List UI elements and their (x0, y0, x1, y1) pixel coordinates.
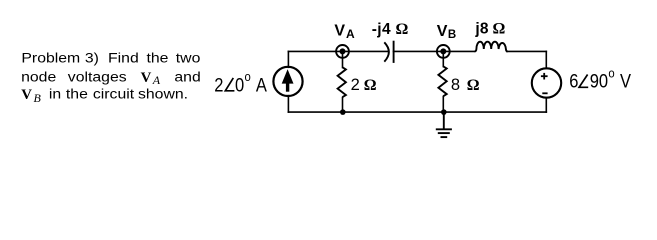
svg-text:8: 8 (451, 76, 460, 94)
capacitor C1 straight plate (393, 41, 395, 63)
voltage source V1 plus sign (541, 73, 548, 80)
svg-text:V: V (437, 23, 448, 40)
svg-text:6: 6 (569, 70, 578, 91)
angle symbol of 2 angle 0 (225, 78, 234, 91)
svg-text:j8: j8 (474, 21, 489, 38)
svg-text:Ω: Ω (396, 21, 409, 38)
svg-text:V: V (620, 70, 631, 91)
wire top right segment (507, 50, 546, 52)
svg-text:0: 0 (235, 74, 244, 95)
svg-text:A: A (346, 27, 355, 41)
svg-text:B: B (448, 29, 456, 41)
wire below resistor R2 (442, 97, 444, 113)
svg-text:V: V (334, 22, 345, 39)
wire top middle segment (394, 50, 475, 52)
capacitor C1 curved plate (384, 42, 389, 61)
svg-text:Ω: Ω (364, 77, 377, 94)
current source I1 arrow (282, 69, 294, 91)
resistor 8ohm zigzag (438, 66, 446, 96)
wire ground stub (443, 112, 445, 129)
wire left branch lower (287, 96, 289, 112)
inductor L1 humps (475, 42, 508, 52)
node A dot (340, 48, 346, 54)
svg-text:o: o (608, 66, 614, 81)
svg-text:o: o (245, 69, 251, 84)
wire top left segment (288, 50, 388, 52)
svg-text:-j4: -j4 (372, 21, 391, 38)
problem statement text (0, 0, 220, 169)
wire right branch upper (545, 51, 547, 68)
svg-text:Ω: Ω (467, 77, 480, 94)
resistor 2ohm zigzag (338, 67, 346, 97)
wire below resistor R1 (342, 98, 344, 113)
label VA (334, 22, 355, 41)
wire VA stub down (342, 51, 344, 67)
label VB (437, 23, 457, 41)
svg-text:Ω: Ω (493, 21, 506, 38)
label j8 ohm (474, 21, 505, 38)
label 6 angle 90 V (569, 66, 631, 92)
current source I1 circle (273, 67, 302, 96)
svg-text:2: 2 (214, 74, 223, 95)
label 2 angle 0 A (214, 69, 267, 95)
svg-text:2: 2 (351, 76, 360, 94)
wire right branch lower (545, 98, 547, 113)
junction dot at R1 bottom (340, 109, 346, 115)
voltage source V1 circle (532, 68, 561, 97)
svg-text:90: 90 (590, 70, 608, 91)
node B dot (440, 48, 446, 54)
label -j4 ohm (372, 21, 409, 38)
svg-text:A: A (256, 74, 267, 95)
node B circle (437, 45, 450, 58)
voltage source V1 minus sign (542, 92, 547, 94)
wire VB stub down (442, 51, 444, 66)
node A circle (336, 45, 349, 58)
ground symbol (436, 129, 452, 137)
label 2 ohm (351, 76, 377, 94)
wire bottom (288, 111, 546, 113)
wire left branch upper (287, 51, 289, 67)
label 8 ohm (451, 76, 480, 94)
angle symbol of 6 angle 90 (579, 75, 588, 88)
junction dot at ground node (441, 109, 447, 115)
